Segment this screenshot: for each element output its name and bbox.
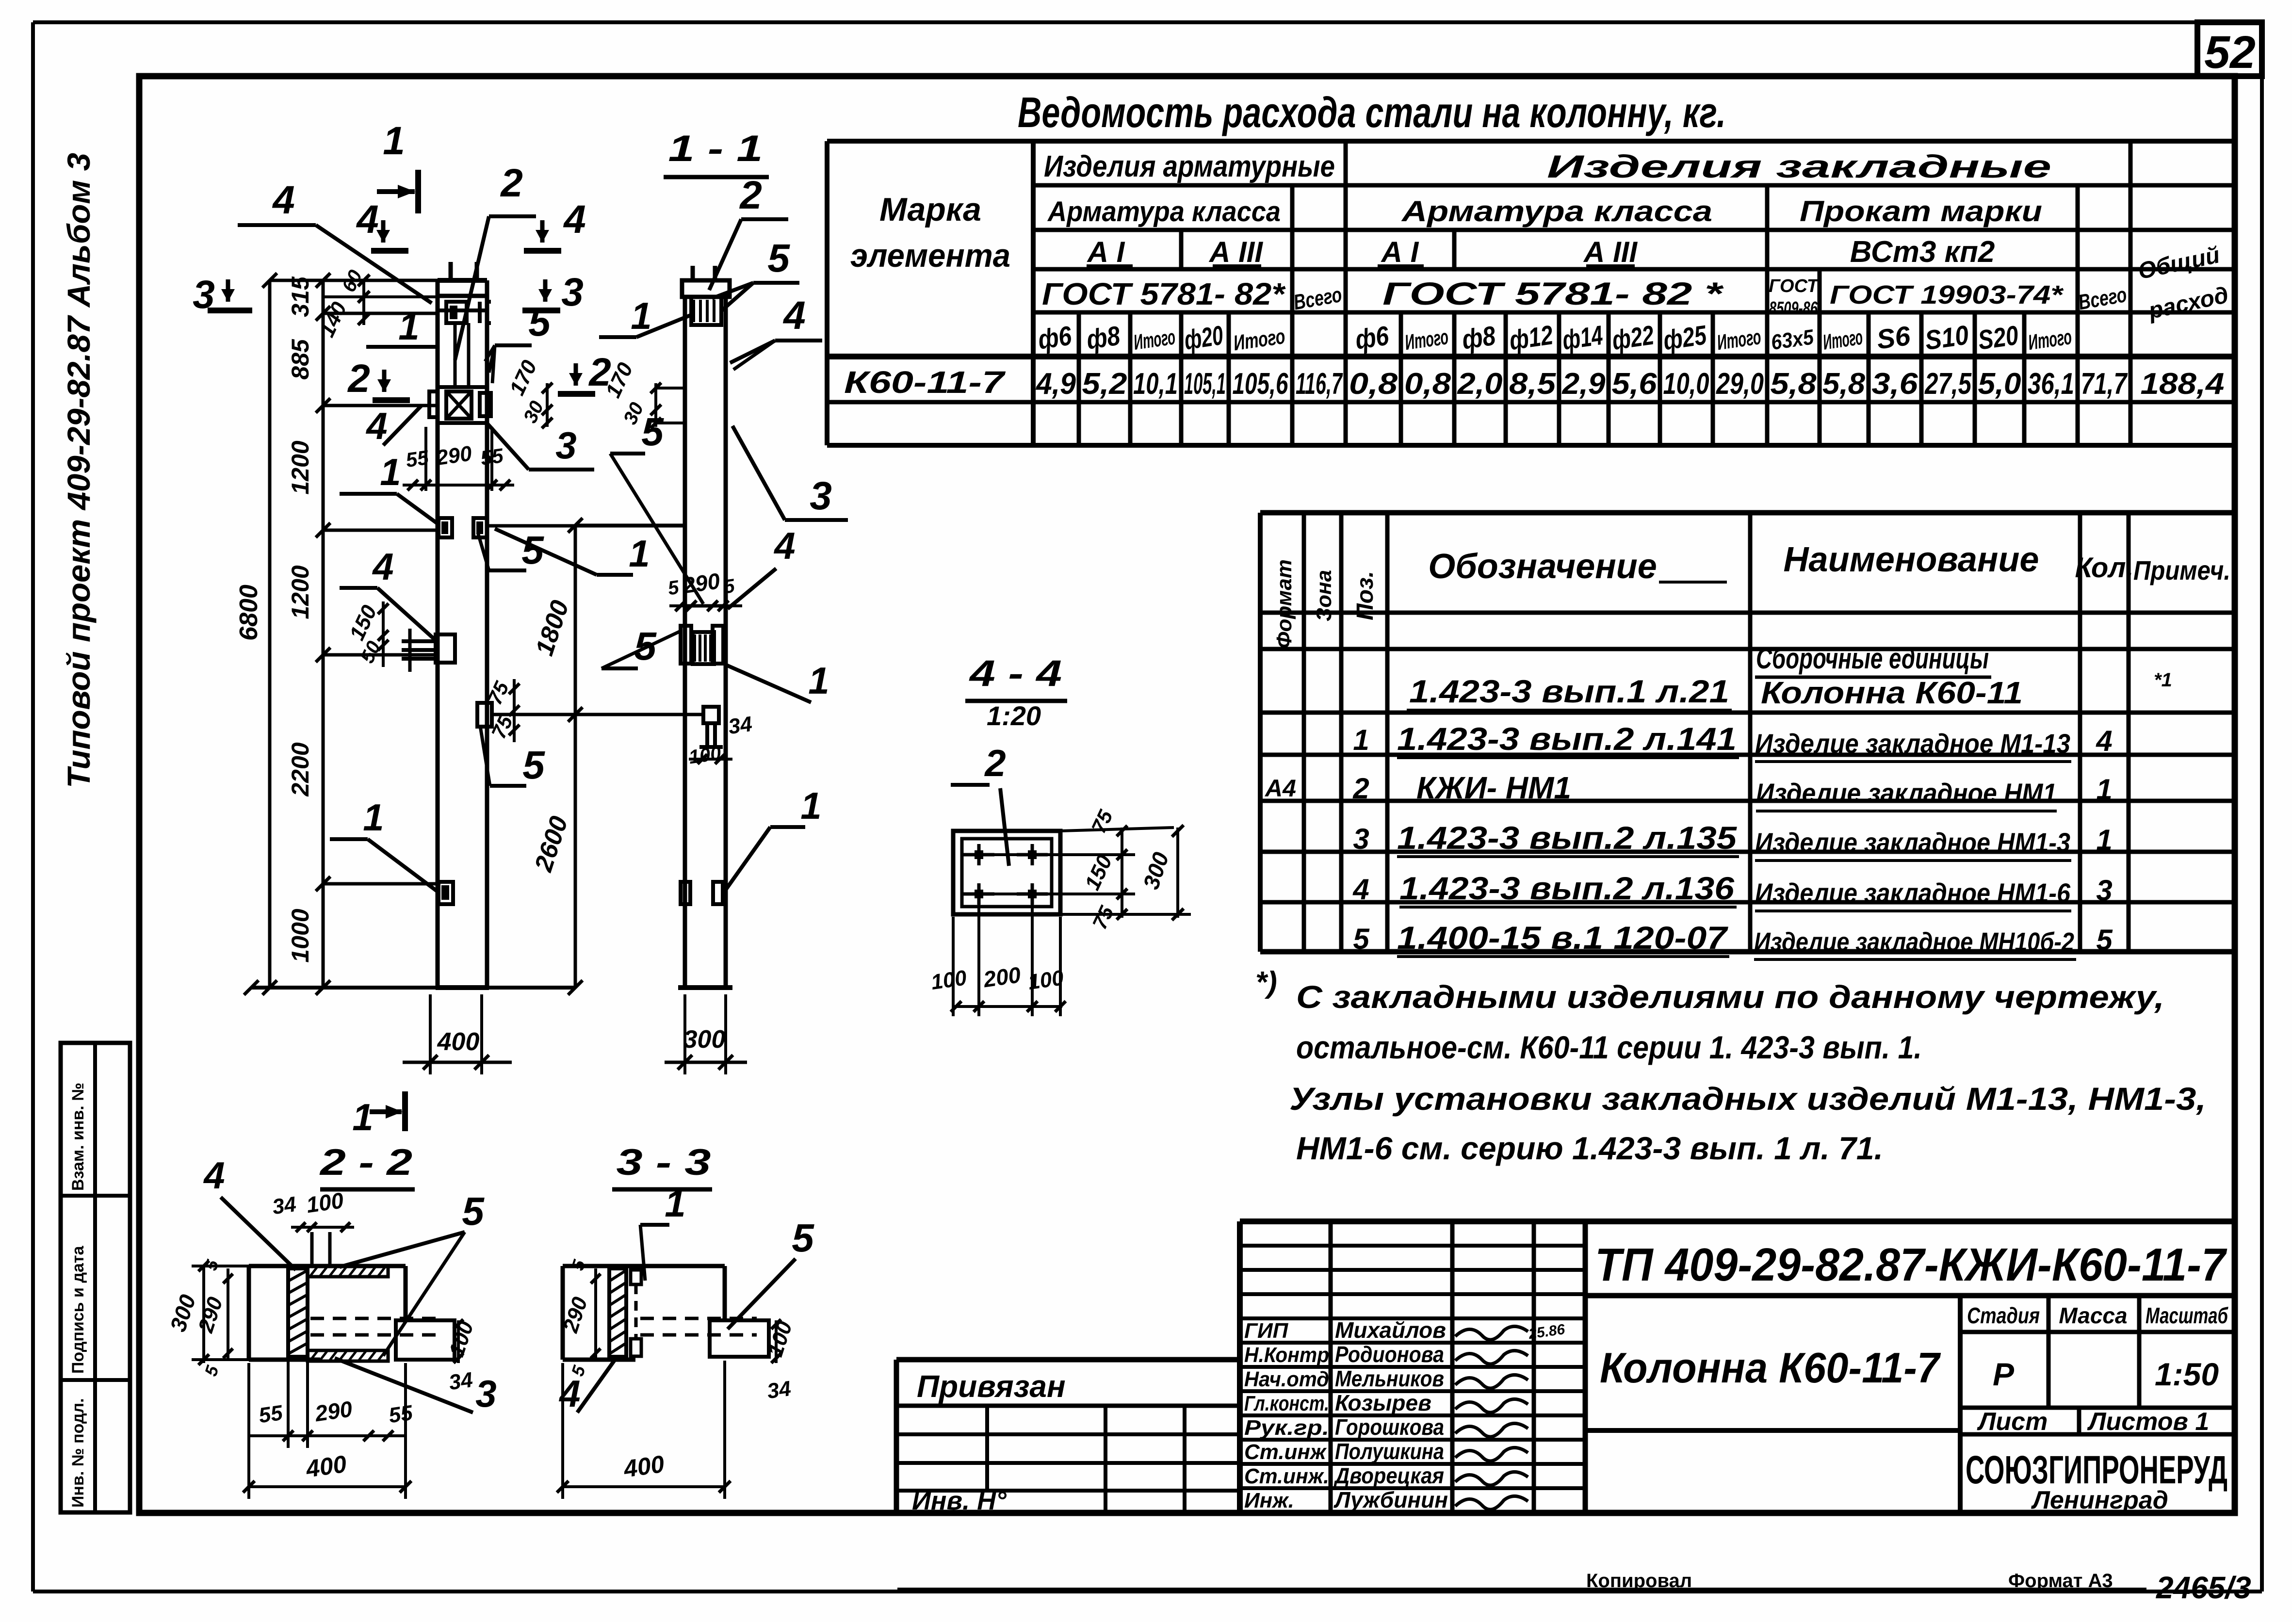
- svg-text:Нач.отд: Нач.отд: [1244, 1367, 1329, 1391]
- svg-text:ГОСТ: ГОСТ: [1769, 276, 1819, 296]
- leader label 3 console: [485, 421, 594, 470]
- svg-text:1: 1: [629, 532, 650, 575]
- dimensions 50 150: [345, 601, 389, 667]
- bottom margin labels: [897, 1570, 2251, 1605]
- svg-text:34: 34: [447, 1368, 474, 1395]
- column elevation view: [402, 262, 704, 988]
- dimension 55 290 55: [403, 441, 514, 490]
- leader label 5 column1: [485, 300, 551, 383]
- svg-text:Арматура класса: Арматура класса: [1047, 196, 1281, 227]
- dimensions 140 60: [315, 267, 438, 341]
- svg-text:Обозначение: Обозначение: [1428, 547, 1657, 586]
- svg-text:НМ1-6 см. серию 1.423-3 вы: НМ1-6 см. серию 1.423-3 вып. 1 л. 71.: [1296, 1130, 1883, 1166]
- svg-text:1.423-3 вып.2 л.136: 1.423-3 вып.2 л.136: [1399, 870, 1735, 906]
- svg-text:элемента: элемента: [850, 237, 1010, 274]
- leader label 1 upper: [366, 305, 439, 348]
- svg-text:1: 1: [2096, 824, 2112, 856]
- svg-text:200: 200: [981, 962, 1023, 992]
- leader label 1 column2: [599, 294, 693, 337]
- svg-text:1: 1: [380, 451, 401, 493]
- section view 4-4: [929, 653, 1191, 1016]
- svg-text:ф6: ф6: [1036, 320, 1074, 355]
- svg-text:5: 5: [522, 743, 545, 787]
- svg-text:4: 4: [356, 197, 379, 242]
- dimensions 30 170 column 1: [505, 357, 553, 428]
- svg-text:4: 4: [272, 178, 295, 222]
- svg-text:Формат: Формат: [1272, 559, 1296, 649]
- section mark 4 right: [524, 197, 586, 251]
- svg-text:290: 290: [681, 568, 722, 598]
- svg-text:885: 885: [287, 339, 314, 380]
- leader label 4 element: [340, 545, 436, 640]
- svg-text:4: 4: [563, 197, 586, 242]
- svg-text:S10: S10: [1923, 319, 1970, 356]
- svg-text:Ленинград: Ленинград: [2031, 1486, 2168, 1514]
- svg-text:1200: 1200: [287, 565, 314, 619]
- svg-text:А III: А III: [1208, 236, 1263, 268]
- svg-text:СОЮЗГИПРОНЕРУД: СОЮЗГИПРОНЕРУД: [1966, 1448, 2227, 1492]
- svg-text:2: 2: [588, 350, 611, 394]
- svg-text:Масса: Масса: [2059, 1303, 2127, 1328]
- leader label 1 mid-right: [495, 529, 650, 575]
- leader label 2 column2: [709, 173, 788, 290]
- svg-text:116,7: 116,7: [1296, 367, 1343, 401]
- svg-text:3: 3: [1353, 823, 1369, 855]
- svg-text:Изделие закладное М1-13: Изделие закладное М1-13: [1755, 728, 2070, 759]
- svg-text:3: 3: [561, 270, 584, 314]
- svg-text:1: 1: [1353, 724, 1369, 756]
- svg-text:Узлы установки закладных из: Узлы установки закладных изделий М1-13, …: [1289, 1081, 2206, 1117]
- svg-text:4: 4: [773, 524, 795, 567]
- svg-text:29,0: 29,0: [1716, 367, 1764, 401]
- svg-text:Инж.: Инж.: [1244, 1489, 1294, 1512]
- leader label 4 column2 element: [728, 524, 796, 609]
- svg-text:4: 4: [782, 293, 806, 338]
- svg-text:Листов 1: Листов 1: [2087, 1408, 2210, 1436]
- svg-text:5,8: 5,8: [1822, 367, 1866, 401]
- leader label 1 column2 bottom: [724, 784, 822, 893]
- dimensions 34 100 column 2: [687, 712, 754, 768]
- specification table: [1260, 513, 2235, 959]
- section mark 3 right: [522, 270, 584, 314]
- dimension 300: [665, 994, 747, 1074]
- svg-text:Типовой проект 409-29-82.87: Типовой проект 409-29-82.87 Альбом 3: [61, 153, 97, 788]
- svg-text:4,9: 4,9: [1035, 367, 1076, 401]
- svg-text:1 - 1: 1 - 1: [668, 128, 763, 169]
- svg-text:34: 34: [727, 712, 753, 739]
- sheet number box 52: [2197, 22, 2262, 78]
- left margin inventory table: [61, 1043, 130, 1512]
- svg-text:К60-11-7: К60-11-7: [844, 365, 1006, 400]
- section mark 3 left: [193, 273, 252, 317]
- svg-text:10,0: 10,0: [1663, 367, 1709, 401]
- svg-text:5: 5: [767, 236, 790, 280]
- svg-text:Лужбинин: Лужбинин: [1333, 1487, 1448, 1512]
- svg-text:5: 5: [462, 1189, 485, 1234]
- svg-text:ф8: ф8: [1085, 320, 1122, 355]
- svg-text:1000: 1000: [287, 909, 314, 962]
- svg-text:Подпись и дата: Подпись и дата: [69, 1245, 87, 1374]
- section view 3-3: [557, 1142, 814, 1499]
- svg-text:100: 100: [929, 966, 968, 994]
- svg-text:5: 5: [792, 1216, 814, 1260]
- svg-text:Р: Р: [1993, 1356, 2015, 1392]
- steel consumption table title: [1018, 88, 1726, 136]
- leader label 1 mid-left: [340, 451, 437, 523]
- svg-text:105,1: 105,1: [1184, 367, 1226, 401]
- svg-text:55: 55: [257, 1401, 284, 1428]
- leader label 4 console: [365, 405, 422, 447]
- svg-text:Козырев: Козырев: [1335, 1390, 1431, 1415]
- svg-text:315: 315: [287, 276, 314, 317]
- svg-text:ГИП: ГИП: [1244, 1319, 1289, 1343]
- svg-text:100: 100: [687, 743, 722, 768]
- section mark 1 top: [377, 119, 418, 213]
- svg-text:Арматура класса: Арматура класса: [1401, 195, 1712, 227]
- svg-text:4: 4: [558, 1372, 580, 1415]
- svg-text:5: 5: [2096, 924, 2113, 956]
- svg-text:3: 3: [475, 1372, 496, 1415]
- leader label 5 low: [480, 726, 545, 787]
- svg-text:1.423-3 вып.2 л.141: 1.423-3 вып.2 л.141: [1397, 721, 1737, 757]
- svg-text:1:50: 1:50: [2155, 1356, 2219, 1392]
- svg-text:105,6: 105,6: [1233, 367, 1288, 401]
- dimension 1800 2600: [529, 518, 704, 995]
- svg-text:4: 4: [365, 405, 387, 447]
- svg-text:ВСт3 кп2: ВСт3 кп2: [1850, 235, 1995, 269]
- svg-text:КЖИ- НМ1: КЖИ- НМ1: [1416, 770, 1571, 805]
- svg-text:5,8: 5,8: [1771, 367, 1817, 401]
- leader label 3 column2: [732, 426, 848, 520]
- svg-text:3: 3: [810, 474, 832, 518]
- leader label 5 column2 top: [712, 236, 799, 310]
- svg-text:100: 100: [305, 1187, 345, 1218]
- svg-text:ГОСТ 19903-74*: ГОСТ 19903-74*: [1830, 280, 2064, 309]
- leader label 4 top-left: [238, 178, 432, 303]
- svg-text:ГОСТ 5781- 82 *: ГОСТ 5781- 82 *: [1382, 276, 1724, 311]
- svg-text:4: 4: [372, 545, 393, 588]
- svg-text:Кол.: Кол.: [2075, 552, 2133, 584]
- svg-text:А III: А III: [1583, 236, 1638, 268]
- section view 2-2: [165, 1142, 496, 1499]
- svg-text:2: 2: [739, 173, 762, 217]
- svg-text:2,0: 2,0: [1457, 367, 1502, 401]
- svg-text:1: 1: [398, 305, 419, 348]
- svg-text:Колонна К60-11-7: Колонна К60-11-7: [1600, 1344, 1941, 1392]
- svg-text:55: 55: [387, 1401, 414, 1428]
- svg-text:1.400-15 в.1 120-07: 1.400-15 в.1 120-07: [1397, 920, 1729, 956]
- leader label 5 column2 low: [601, 624, 682, 668]
- svg-text:Ст.инж.: Ст.инж.: [1244, 1464, 1329, 1488]
- svg-text:Инв. Н°: Инв. Н°: [912, 1486, 1007, 1515]
- svg-text:55: 55: [405, 446, 430, 471]
- leader label 2 column1: [455, 161, 536, 360]
- svg-text:1: 1: [665, 1182, 685, 1225]
- svg-text:8509-86: 8509-86: [1769, 298, 1818, 319]
- svg-text:3 - 3: 3 - 3: [617, 1142, 711, 1183]
- svg-text:ф12: ф12: [1507, 319, 1555, 356]
- svg-text:ф8: ф8: [1460, 320, 1498, 355]
- steel consumption table: [827, 141, 2235, 445]
- svg-text:Ст.инж: Ст.инж: [1244, 1440, 1327, 1464]
- svg-text:Изделие закладное НМ1: Изделие закладное НМ1: [1756, 778, 2057, 808]
- svg-text:Родионова: Родионова: [1335, 1342, 1444, 1367]
- svg-text:8,5: 8,5: [1509, 367, 1557, 401]
- svg-text:Взам. инв. №: Взам. инв. №: [69, 1083, 87, 1191]
- svg-text:4 - 4: 4 - 4: [969, 653, 1062, 694]
- svg-text:Масштаб: Масштаб: [2146, 1303, 2228, 1328]
- svg-text:Зона: Зона: [1312, 570, 1336, 621]
- svg-text:52: 52: [2204, 27, 2256, 78]
- svg-text:Поз.: Поз.: [1352, 571, 1378, 620]
- svg-text:1.423-3 вып.1 л.21: 1.423-3 вып.1 л.21: [1409, 673, 1729, 709]
- svg-text:4: 4: [1352, 873, 1369, 906]
- svg-text:27,5: 27,5: [1924, 367, 1972, 401]
- svg-text:6800: 6800: [235, 585, 263, 641]
- svg-text:Инв. № подл.: Инв. № подл.: [69, 1398, 87, 1508]
- svg-text:Стадия: Стадия: [1967, 1303, 2040, 1328]
- svg-text:Привязан: Привязан: [917, 1369, 1066, 1404]
- svg-text:ф20: ф20: [1182, 320, 1225, 356]
- svg-text:2 - 2: 2 - 2: [319, 1142, 412, 1183]
- svg-text:5: 5: [1353, 923, 1370, 955]
- leader label 5 mid: [478, 528, 544, 572]
- dimension 5 290 5: [666, 568, 742, 611]
- vertical project title text: [61, 153, 97, 788]
- svg-text:Гл.конст.: Гл.конст.: [1244, 1392, 1329, 1415]
- svg-text:290: 290: [313, 1396, 354, 1426]
- svg-text:Марка: Марка: [879, 191, 981, 228]
- svg-text:S6: S6: [1875, 320, 1913, 355]
- footnote text: [1255, 966, 2206, 1166]
- svg-text:2465/3: 2465/3: [2156, 1570, 2251, 1605]
- leader label 1 column2 element: [725, 659, 829, 702]
- svg-text:Примеч.: Примеч.: [2133, 555, 2230, 585]
- svg-text:1: 1: [352, 1096, 373, 1138]
- svg-text:ТП 409-29-82.87-КЖИ-К60-11-7: ТП 409-29-82.87-КЖИ-К60-11-7: [1595, 1239, 2227, 1291]
- dimensions 75 75: [483, 678, 520, 742]
- svg-text:Колонна К60-11: Колонна К60-11: [1761, 675, 2023, 710]
- svg-text:Сборочные единицы: Сборочные единицы: [1756, 642, 1989, 675]
- svg-text:Изделия арматурные: Изделия арматурные: [1044, 150, 1335, 183]
- svg-text:400: 400: [437, 1028, 480, 1056]
- svg-text:*1: *1: [2154, 669, 2172, 691]
- svg-text:55: 55: [479, 444, 505, 470]
- svg-text:5: 5: [641, 410, 664, 454]
- svg-text:Изделие закладное МН10б-2: Изделие закладное МН10б-2: [1754, 927, 2074, 957]
- svg-text:*): *): [1255, 966, 1277, 999]
- svg-text:34: 34: [271, 1192, 297, 1219]
- leader label 5 column2 mid: [610, 410, 703, 604]
- svg-text:188,4: 188,4: [2141, 367, 2225, 401]
- svg-text:ГОСТ 5781- 82*: ГОСТ 5781- 82*: [1042, 276, 1286, 311]
- svg-text:Изделия закладные: Изделия закладные: [1547, 148, 2051, 184]
- svg-text:1: 1: [383, 119, 405, 163]
- svg-text:4: 4: [2096, 725, 2112, 757]
- dimension chain 6800: [235, 273, 277, 995]
- dimension 400: [403, 994, 512, 1074]
- svg-text:Прокат марки: Прокат марки: [1800, 195, 2042, 227]
- svg-text:0,8: 0,8: [1404, 367, 1451, 401]
- svg-text:5,6: 5,6: [1612, 367, 1658, 401]
- svg-text:Рук.гр.: Рук.гр.: [1244, 1416, 1329, 1440]
- svg-text:400: 400: [304, 1450, 348, 1483]
- svg-text:1: 1: [2096, 773, 2112, 806]
- section mark 2 right: [558, 350, 611, 394]
- svg-text:Изделие закладное НМ1-6: Изделие закладное НМ1-6: [1755, 877, 2071, 908]
- svg-text:1: 1: [808, 659, 829, 702]
- svg-text:Изделие закладное НМ1-3: Изделие закладное НМ1-3: [1755, 827, 2070, 858]
- svg-text:5: 5: [528, 300, 551, 344]
- svg-text:Н.Контр: Н.Контр: [1244, 1343, 1329, 1367]
- section mark 4 left: [356, 197, 408, 251]
- svg-text:36,1: 36,1: [2028, 367, 2074, 401]
- svg-text:2,9: 2,9: [1561, 367, 1606, 401]
- svg-text:ф22: ф22: [1610, 320, 1656, 356]
- svg-text:С закладными изделиями по: С закладными изделиями по данному чертеж…: [1296, 979, 2164, 1015]
- svg-text:0,8: 0,8: [1349, 367, 1398, 401]
- svg-text:4: 4: [203, 1154, 225, 1197]
- svg-text:1200: 1200: [287, 440, 314, 494]
- svg-text:34: 34: [765, 1377, 792, 1403]
- svg-text:А I: А I: [1381, 236, 1419, 268]
- svg-text:1: 1: [800, 784, 821, 827]
- svg-text:Лист: Лист: [1977, 1408, 2048, 1436]
- title block: [896, 1221, 2235, 1515]
- svg-text:300: 300: [683, 1025, 726, 1054]
- svg-text:1: 1: [363, 796, 384, 839]
- svg-text:1:20: 1:20: [987, 700, 1041, 731]
- svg-text:5,0: 5,0: [1978, 367, 2021, 401]
- dimension chain segments: [244, 273, 575, 995]
- svg-text:71,7: 71,7: [2081, 367, 2128, 401]
- svg-text:2200: 2200: [287, 742, 314, 796]
- svg-text:2: 2: [984, 742, 1006, 784]
- svg-text:ф6: ф6: [1353, 320, 1391, 355]
- svg-text:2: 2: [1352, 772, 1369, 805]
- svg-text:1.423-3 вып.2 л.135: 1.423-3 вып.2 л.135: [1397, 820, 1737, 856]
- svg-text:Ведомость расхода стали на: Ведомость расхода стали на колонну, кг.: [1018, 88, 1726, 136]
- svg-text:Михайлов: Михайлов: [1335, 1317, 1446, 1343]
- svg-text:Наименование: Наименование: [1784, 540, 2039, 579]
- dimensions 30 170 column 2: [601, 359, 685, 428]
- svg-text:10,1: 10,1: [1133, 367, 1178, 401]
- svg-text:3: 3: [2096, 874, 2112, 907]
- svg-text:Мельников: Мельников: [1335, 1366, 1444, 1391]
- section mark 2 left: [347, 357, 410, 401]
- svg-text:Горошкова: Горошкова: [1335, 1414, 1444, 1440]
- svg-text:5,2: 5,2: [1082, 367, 1127, 401]
- svg-text:Дворецкая: Дворецкая: [1333, 1463, 1444, 1488]
- svg-text:3,6: 3,6: [1872, 367, 1918, 401]
- leader label 4 column2: [730, 293, 822, 370]
- svg-text:А I: А I: [1087, 236, 1125, 268]
- svg-text:2: 2: [500, 161, 523, 205]
- svg-text:S20: S20: [1976, 320, 2020, 356]
- leader label 1 low-left: [330, 796, 438, 892]
- svg-text:400: 400: [621, 1450, 666, 1483]
- section mark 1 lower: [352, 1091, 405, 1138]
- svg-text:Полушкина: Полушкина: [1335, 1439, 1444, 1464]
- svg-text:3: 3: [555, 424, 576, 467]
- svg-text:2: 2: [347, 357, 370, 401]
- svg-text:остальное-см. К60-11 серии 1: остальное-см. К60-11 серии 1. 423-3 вып.…: [1296, 1029, 1922, 1065]
- column view 1-1: [664, 128, 769, 988]
- svg-text:А4: А4: [1264, 775, 1296, 802]
- svg-text:ф14: ф14: [1561, 320, 1605, 356]
- svg-text:ф25: ф25: [1661, 319, 1709, 356]
- svg-text:290: 290: [434, 441, 473, 470]
